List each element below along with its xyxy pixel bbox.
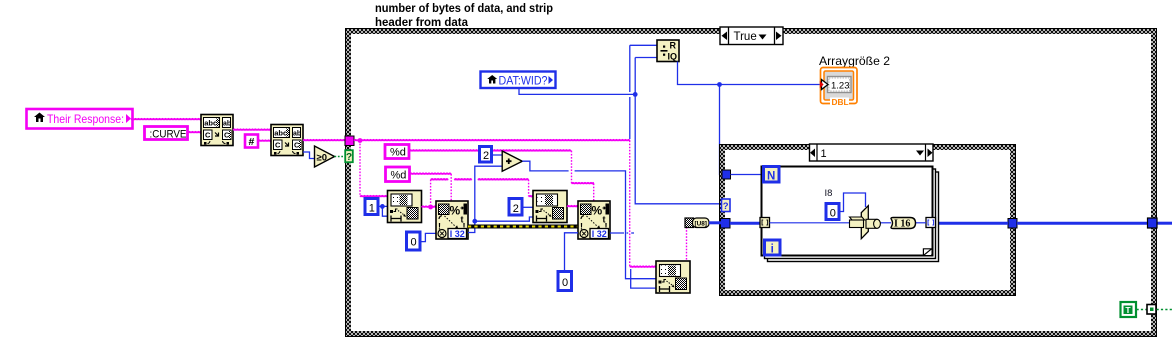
svg-text:I 16: I 16 <box>894 219 910 230</box>
for loop count terminal N <box>764 167 780 183</box>
numeric constant 0 in loop <box>826 204 839 220</box>
svg-text:%d: %d <box>391 170 407 182</box>
label I8 <box>825 188 833 199</box>
numeric constant 2 for add <box>480 147 492 163</box>
outer case selector label True <box>720 27 783 45</box>
error wire Scan B to Scan D <box>468 225 578 229</box>
string constant %d 1 <box>385 145 409 159</box>
inner case structure border <box>720 145 1016 296</box>
local variable DAT:WID? <box>481 72 556 89</box>
string wire :CURVE to Match Pattern 1 <box>188 132 201 133</box>
svg-text:%: % <box>592 204 603 218</box>
svg-text:2: 2 <box>513 203 519 215</box>
inner case selector terminal <box>722 199 731 212</box>
quotient and remainder node <box>657 40 679 62</box>
String To Byte Array node [u8] <box>685 218 709 228</box>
greater or equal to 0 node <box>315 146 335 167</box>
svg-text::CURVE: :CURVE <box>150 129 187 141</box>
svg-text:R: R <box>670 41 677 51</box>
join numbers node <box>850 206 881 239</box>
wire 2 to Subset C <box>523 206 534 208</box>
byte array wire into inner case <box>709 221 721 224</box>
wire 0 to join numbers <box>839 193 866 212</box>
for loop frame with stacked shadow frames <box>762 167 939 262</box>
for loop right indexing tunnel <box>926 218 936 228</box>
byte array wire tunnel to for loop <box>730 222 760 225</box>
svg-text:1: 1 <box>369 203 375 215</box>
wire convert to tunnel <box>915 222 927 224</box>
numeric constant 0 second <box>558 272 572 291</box>
element wire in loop <box>770 222 850 224</box>
local variable Their Response: <box>27 109 133 129</box>
string wire Match Pattern 2 to tunnel <box>303 140 345 141</box>
svg-text:i: i <box>771 244 774 256</box>
svg-text:DBL: DBL <box>832 97 849 107</box>
Scan From String node D <box>578 201 610 239</box>
wire DAT:WID to quotient node and case selector <box>519 58 721 204</box>
for loop left indexing tunnel <box>760 218 770 228</box>
comment label: number of bytes of data, and strip header from data <box>375 1 553 29</box>
String Subset node A <box>388 191 422 223</box>
boolean wire True to tunnel <box>1137 309 1148 311</box>
add node <box>502 151 522 171</box>
string constant # <box>245 135 258 149</box>
svg-text:%d: %d <box>390 147 406 159</box>
wire 2 to add node <box>492 154 503 156</box>
numeric constant 2 for Subset C <box>509 199 522 216</box>
svg-text:ab: ab <box>293 131 301 138</box>
svg-text:True: True <box>734 31 757 43</box>
svg-text:2: 2 <box>483 150 489 162</box>
string junction <box>358 138 363 143</box>
svg-text:1.23: 1.23 <box>831 81 850 92</box>
svg-text:%: % <box>450 204 461 218</box>
String Subset node E <box>656 261 690 293</box>
for loop iteration terminal i <box>765 240 781 256</box>
string wire # to Match Pattern 2 <box>258 140 271 141</box>
svg-text:[U8]: [U8] <box>695 220 707 227</box>
string wire Their Response to Match Pattern 1 <box>131 119 201 120</box>
array wire out of diagram <box>1157 222 1172 225</box>
outer case array output tunnel <box>1148 218 1158 228</box>
wire Scan D I32 output stub <box>610 232 634 234</box>
string wire %d2 to Scan From String B <box>410 173 452 201</box>
string wire Match Pattern 1 to Match Pattern 2 <box>233 129 271 130</box>
numeric constant 1 <box>365 199 378 215</box>
wire quotient output to Arraygroesse and inner case <box>678 62 821 175</box>
array wire for loop to inner tunnel <box>935 222 1008 225</box>
string wire down to String Subset E <box>630 141 656 268</box>
svg-text:C: C <box>205 131 211 140</box>
string wire Subset E to String To Byte Array <box>686 227 688 261</box>
Match Pattern node 2 <box>271 125 303 156</box>
svg-text:?: ? <box>723 201 729 212</box>
svg-text:0: 0 <box>562 277 568 289</box>
svg-text:IQ: IQ <box>668 52 678 62</box>
case selector terminal ? <box>345 150 353 163</box>
svg-text:Their Response:: Their Response: <box>47 112 124 126</box>
string wire Subset C to Scan D <box>567 206 578 207</box>
svg-text:abc: abc <box>274 129 287 138</box>
array wire inner tunnel to outer tunnel <box>1017 222 1147 225</box>
numeric constant 0 first <box>407 232 421 250</box>
wire to quotient dividend input <box>630 45 657 139</box>
for loop folded corner <box>923 249 931 256</box>
svg-text:I8: I8 <box>825 188 833 199</box>
inner case tunnel array input <box>721 219 731 229</box>
wire add output down across case <box>522 161 656 279</box>
boolean tunnel on outer case <box>1147 305 1156 315</box>
boolean wire to case selector terminal <box>335 156 346 158</box>
svg-text:0: 0 <box>411 237 417 249</box>
svg-text:I 32: I 32 <box>592 229 607 239</box>
wire 1 to String Subset A <box>378 204 388 216</box>
wire offset to greater-equal-0 <box>303 152 315 159</box>
string wire tunnel to junction and across case <box>354 140 630 141</box>
indicator Arraygroesse 2 <box>819 54 890 107</box>
svg-text:DAT:WID?: DAT:WID? <box>499 76 548 88</box>
inner case tunnel array output <box>1008 219 1017 229</box>
string constant :CURVE <box>145 127 188 141</box>
string wire down to String Subset A <box>360 141 388 197</box>
wire 0 to Scan From String B <box>420 233 436 241</box>
boolean constant True <box>1121 302 1137 317</box>
svg-text:N: N <box>767 170 775 182</box>
String Subset node C <box>533 191 567 223</box>
inner case tunnel N input <box>722 170 731 179</box>
svg-text:1: 1 <box>821 148 827 160</box>
wire into Subset E lower input <box>631 269 656 288</box>
outer case structure border <box>346 29 1157 337</box>
wire tunnel to N terminal <box>731 174 765 176</box>
Scan From String node B <box>436 201 468 239</box>
string wire %d1 to Scan From String D <box>409 150 594 201</box>
string constant %d 2 <box>386 167 410 182</box>
boolean wire out of diagram <box>1157 309 1172 311</box>
wire join to convert <box>880 222 891 224</box>
svg-text:Arraygröße 2: Arraygröße 2 <box>819 54 890 68</box>
Match Pattern node 1 <box>201 115 233 146</box>
svg-text:I 32: I 32 <box>450 229 465 239</box>
svg-text:0: 0 <box>830 208 836 220</box>
svg-text:abc: abc <box>204 119 217 128</box>
string tunnel on outer case <box>345 136 354 146</box>
string wire Subset A output to Scan B and Subset C <box>422 179 534 210</box>
to word integer I16 conversion <box>891 218 916 230</box>
svg-text:T: T <box>1125 305 1131 315</box>
svg-text:#: # <box>249 136 255 148</box>
svg-text:ab: ab <box>223 121 231 128</box>
svg-text:number of bytes of data, and s: number of bytes of data, and strip <box>375 1 553 15</box>
inner case selector label 1 <box>810 144 934 161</box>
svg-text:?: ? <box>346 152 352 163</box>
svg-text:header from data: header from data <box>375 15 468 29</box>
svg-text:C: C <box>275 141 281 150</box>
wire 0 to Scan D <box>565 233 579 272</box>
wire Scan B I32 output to add node and Subset C <box>468 166 533 232</box>
svg-text:≥0: ≥0 <box>317 153 328 164</box>
